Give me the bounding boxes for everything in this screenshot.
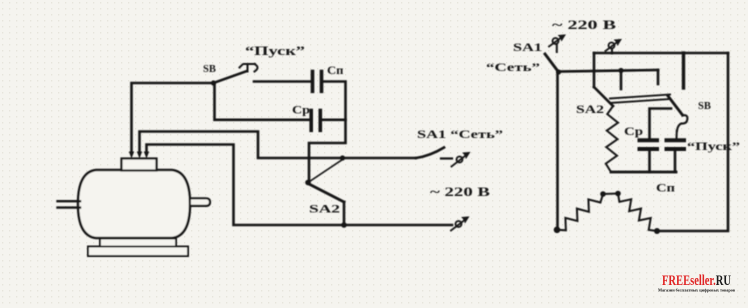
svg-text:Ср: Ср <box>624 124 643 138</box>
svg-text:SA1: SA1 <box>513 42 542 54</box>
svg-text:Магазин бесплатных цифровых то: Магазин бесплатных цифровых товаров <box>658 288 735 293</box>
svg-text:~ 220 В: ~ 220 В <box>430 185 490 199</box>
svg-text:Ср: Ср <box>292 103 310 117</box>
svg-text:“Пуск”: “Пуск” <box>687 139 740 153</box>
svg-text:SB: SB <box>698 101 711 112</box>
svg-text:“Пуск”: “Пуск” <box>245 44 305 58</box>
svg-text:SB: SB <box>203 64 216 75</box>
svg-text:SA2: SA2 <box>309 204 340 216</box>
svg-text:Сп: Сп <box>656 181 675 195</box>
svg-text:“Сеть”: “Сеть” <box>486 62 540 74</box>
svg-text:SA2: SA2 <box>576 104 604 116</box>
svg-text:~ 220 В: ~ 220 В <box>552 18 616 32</box>
svg-text:Сп: Сп <box>327 63 344 77</box>
svg-text:SA1 “Сеть”: SA1 “Сеть” <box>417 129 503 141</box>
